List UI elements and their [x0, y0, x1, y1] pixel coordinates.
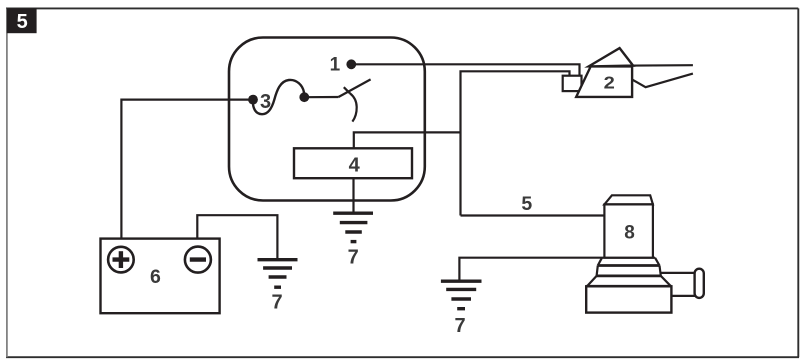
- wire node 1 to switch 2 connector: [356, 64, 580, 75]
- switch blade (open): [339, 79, 371, 97]
- wire squiggle (flexible lead): [253, 80, 304, 114]
- svg-text:5: 5: [17, 11, 28, 33]
- svg-text:1: 1: [330, 55, 341, 76]
- pump ground wire: [459, 258, 655, 281]
- node 1: [346, 59, 356, 69]
- riser wire: [461, 71, 570, 215]
- relay box 4: [294, 148, 412, 178]
- figure number badge 5: [7, 8, 37, 33]
- control unit box (rounded enclosure): [229, 38, 425, 201]
- svg-text:7: 7: [271, 292, 282, 314]
- switch 2 body: [576, 66, 632, 97]
- pump 8 body: [604, 204, 653, 257]
- switch 2 connector tab: [563, 76, 582, 91]
- wire vertical through relay box 4 to ground: [352, 148, 354, 212]
- pump 8 cap: [604, 195, 653, 204]
- svg-text:7: 7: [454, 315, 465, 337]
- svg-text:7: 7: [348, 247, 359, 269]
- wire switch branch to riser: [354, 132, 461, 148]
- pump 8 flange steps: [586, 258, 671, 287]
- wire 5 to pump: [461, 214, 606, 216]
- pump 8 outlet nozzle: [661, 272, 696, 274]
- node 3: [248, 95, 258, 105]
- wire battery - to ground: [197, 215, 277, 259]
- battery 6 box: [101, 239, 220, 314]
- pump 8 base: [586, 286, 671, 312]
- switch 2 lever arm: [632, 64, 693, 67]
- wire battery + to node 3: [121, 100, 250, 239]
- svg-text:4: 4: [349, 154, 361, 176]
- switch actuator arc: [350, 93, 357, 121]
- svg-text:8: 8: [624, 223, 635, 244]
- svg-text:2: 2: [604, 72, 616, 92]
- ground (below box 4): [333, 213, 373, 241]
- battery + terminal: [108, 247, 134, 273]
- ground (pump): [441, 281, 482, 309]
- switch tick mark: [344, 87, 350, 93]
- node (switch input dot): [299, 92, 309, 102]
- battery - terminal: [185, 247, 211, 273]
- svg-text:6: 6: [150, 266, 161, 288]
- switch 2 knob triangle: [589, 48, 633, 66]
- ground (battery): [258, 260, 298, 288]
- wire node to switch contact: [304, 96, 338, 98]
- svg-text:5: 5: [521, 193, 532, 215]
